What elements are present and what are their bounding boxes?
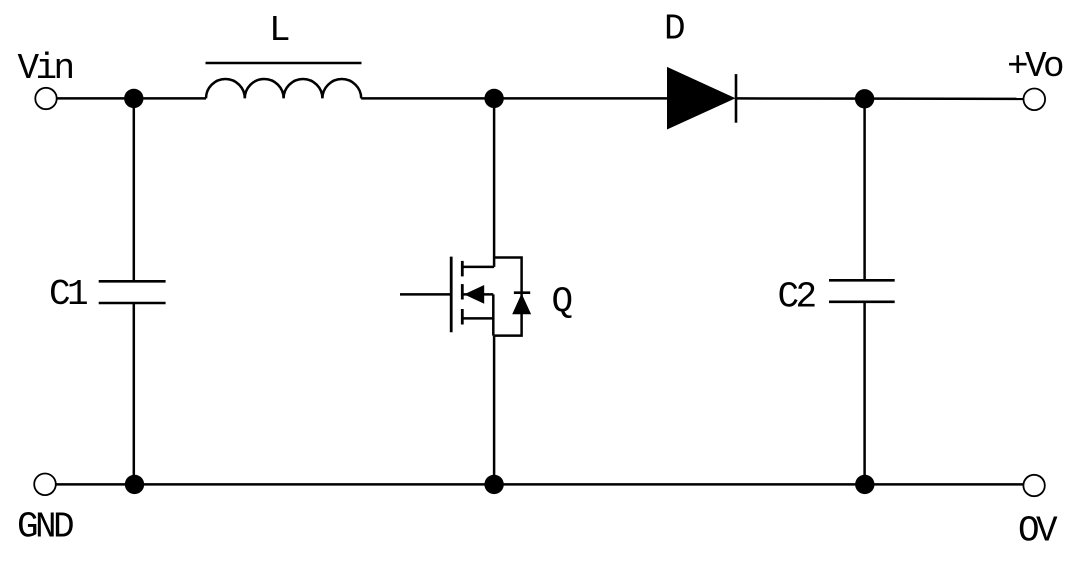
wire Vin to inductor xyxy=(57,97,206,100)
body diode of Q xyxy=(512,293,531,315)
svg-text:OV: OV xyxy=(1018,511,1058,552)
wire inductor to diode xyxy=(361,97,667,100)
body arrow of Q xyxy=(464,285,484,304)
svg-text:L: L xyxy=(269,10,289,51)
svg-text:D: D xyxy=(664,8,684,49)
svg-text:Vin: Vin xyxy=(18,48,73,89)
capacitor C2 xyxy=(829,99,895,485)
gate lead xyxy=(400,293,451,296)
wire diode to output xyxy=(736,97,1024,100)
gate plate xyxy=(450,257,453,333)
diode D xyxy=(667,67,736,130)
wire top corner to body diode xyxy=(494,258,521,336)
terminal +Vo xyxy=(1024,89,1046,111)
channel segment middle xyxy=(461,284,464,299)
drain contact bar xyxy=(462,266,495,269)
source contact bar xyxy=(462,317,494,320)
capacitor C1 xyxy=(99,98,166,484)
svg-text:C2: C2 xyxy=(778,277,816,318)
svg-text:GND: GND xyxy=(17,507,73,548)
node D3 (C2 bottom junction) xyxy=(855,475,874,494)
node D2 (source bottom junction) xyxy=(484,475,503,494)
svg-text:Q: Q xyxy=(552,282,572,323)
channel segment top xyxy=(461,261,464,277)
body contact bar xyxy=(463,293,493,296)
transistor Q (N-MOSFET with body diode) xyxy=(400,98,522,484)
node A (input/C1 junction) xyxy=(124,89,143,108)
body-source vertical xyxy=(492,294,495,335)
terminal Vin xyxy=(35,88,56,109)
channel segment bottom xyxy=(461,309,464,325)
wire bottom rail xyxy=(56,483,1024,486)
node C (output/C2 junction) xyxy=(855,89,874,108)
terminal 0V xyxy=(1023,475,1044,496)
wire source vertical to rail xyxy=(493,336,496,485)
svg-text:C1: C1 xyxy=(49,274,87,315)
terminal GND xyxy=(34,474,56,496)
svg-text:+Vo: +Vo xyxy=(1007,46,1063,87)
node D1 (C1 bottom junction) xyxy=(125,475,144,494)
node B (switch/diode junction) xyxy=(484,89,503,108)
inductor L xyxy=(206,63,362,98)
wire drain vertical xyxy=(493,98,496,267)
